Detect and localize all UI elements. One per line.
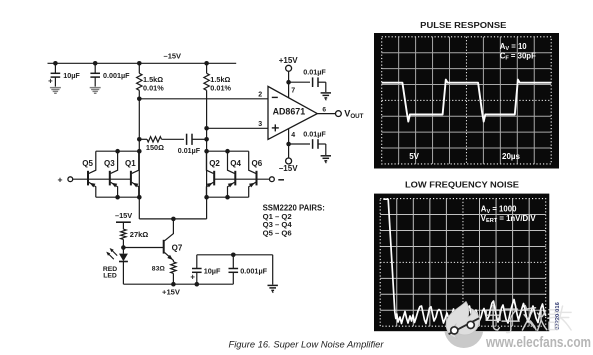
label - input bbox=[278, 179, 284, 181]
svg-text:83Ω: 83Ω bbox=[152, 265, 166, 272]
junction: pin3 node bbox=[204, 126, 209, 131]
node: VOUT terminal bbox=[336, 111, 342, 117]
op-amp minus marking bbox=[272, 96, 278, 98]
-15V supply terminal (bias) bbox=[116, 222, 131, 229]
transistor Q4 bbox=[228, 151, 236, 197]
svg-text:0.01µF: 0.01µF bbox=[303, 129, 326, 138]
junction: Q1 emitter at vertical bbox=[137, 195, 142, 200]
wire: tail bus bbox=[139, 218, 206, 220]
svg-text:Q7: Q7 bbox=[172, 244, 183, 253]
svg-text:+: + bbox=[48, 77, 53, 86]
svg-text:0.01%: 0.01% bbox=[210, 83, 231, 92]
svg-text:+: + bbox=[57, 174, 62, 184]
svg-text:4: 4 bbox=[291, 132, 295, 139]
op-amp U1 AD8671 bbox=[268, 86, 317, 139]
svg-text:150Ω: 150Ω bbox=[146, 143, 164, 152]
junction: pin2 node bbox=[137, 97, 142, 102]
transistor Q3 bbox=[110, 151, 118, 197]
svg-text:CF = 30pF: CF = 30pF bbox=[500, 51, 536, 61]
svg-text:Q1: Q1 bbox=[125, 159, 136, 168]
diode RED LED bbox=[119, 248, 128, 285]
+15V supply terminal (op-amp pin 7) bbox=[286, 65, 292, 98]
junction: 0.001uF on rail bbox=[93, 61, 98, 66]
ground (0.001uF) bbox=[90, 87, 101, 89]
svg-text:Q5 – Q6: Q5 – Q6 bbox=[263, 229, 292, 238]
junction: 10uF on rail bbox=[53, 61, 58, 66]
wire: noninverting node to op-amp pin 3 bbox=[207, 127, 268, 129]
svg-text:2: 2 bbox=[258, 91, 262, 98]
junction: Q4 emitter bbox=[225, 195, 230, 200]
svg-text:Q3: Q3 bbox=[104, 159, 115, 168]
junction: Q7 collector on tail bus bbox=[171, 217, 176, 222]
resistor 1.5k 0.01% (right) bbox=[204, 63, 209, 128]
svg-text:+15V: +15V bbox=[162, 288, 181, 297]
svg-text:10µF: 10µF bbox=[63, 71, 80, 80]
svg-text:0.01%: 0.01% bbox=[143, 83, 164, 92]
junction: 0.001uF top bbox=[231, 253, 236, 258]
junction: 83R on +15V rail bbox=[171, 282, 176, 287]
junction: Q2 collector at vertical bbox=[204, 149, 209, 154]
capacitor 0.001uF (bottom bypass) bbox=[229, 255, 239, 284]
transistor Q5 bbox=[88, 151, 96, 197]
capacitor 0.01uF (pin4 bypass) bbox=[289, 139, 326, 155]
transistor Q6 bbox=[249, 151, 257, 197]
resistor 27k bbox=[121, 229, 126, 247]
SSM2220 pairs note bbox=[263, 203, 325, 237]
label RED LED bbox=[103, 266, 117, 280]
svg-text:27kΩ: 27kΩ bbox=[130, 230, 149, 239]
wire: bottom bypass top line bbox=[197, 254, 273, 256]
junction: pin4 bypass tap bbox=[286, 142, 291, 147]
transistor Q2 bbox=[206, 151, 214, 197]
junction: cap at right vertical bbox=[204, 137, 209, 142]
svg-text:LED: LED bbox=[103, 272, 117, 279]
svg-text:PULSE RESPONSE: PULSE RESPONSE bbox=[420, 20, 506, 30]
svg-text:AD8671: AD8671 bbox=[273, 107, 306, 117]
capacitor 0.01uF (pin7 bypass) bbox=[289, 77, 326, 92]
LED light emission arrows bbox=[106, 248, 117, 259]
transistor Q1 bbox=[131, 151, 139, 197]
svg-text:Q5: Q5 bbox=[82, 159, 93, 168]
svg-text:Figure 16. Super Low Noise Amp: Figure 16. Super Low Noise Amplifier bbox=[229, 340, 385, 350]
node: - input terminal bbox=[270, 177, 275, 182]
value 1.5kOhm 0.01% (right) bbox=[210, 75, 231, 92]
capacitor 10uF (bottom bypass) bbox=[190, 255, 201, 284]
svg-text:Q4: Q4 bbox=[230, 159, 241, 168]
svg-text:+: + bbox=[190, 272, 195, 281]
junction: Q3 emitter bbox=[115, 195, 120, 200]
capacitor C 0.001uF (left bypass) bbox=[90, 63, 100, 86]
capacitor C 10uF (left bypass) bbox=[48, 63, 60, 86]
wire: output to VOUT terminal bbox=[317, 113, 336, 115]
svg-text:www.elecfans.com: www.elecfans.com bbox=[485, 335, 591, 351]
junction: Q2 emitter at vertical bbox=[204, 195, 209, 200]
svg-text:5V: 5V bbox=[409, 152, 419, 161]
junction: Q4 collector bbox=[225, 149, 230, 154]
junction: LED / Q7 base node bbox=[121, 245, 126, 250]
junction: 150R at left vertical bbox=[137, 137, 142, 142]
ground (pin4 bypass) bbox=[321, 155, 331, 157]
watermark molecule circle 2 bbox=[467, 321, 474, 328]
svg-text:Q6: Q6 bbox=[252, 159, 263, 168]
wire: left main vertical bbox=[138, 99, 140, 219]
wire: node to Q7 base bbox=[123, 247, 163, 249]
junction: R right on rail bbox=[204, 61, 209, 66]
wire: right emitter bus bbox=[207, 196, 249, 198]
junction: 10uF on +15V rail bbox=[195, 282, 200, 287]
scope 2 bezel and graticule bbox=[374, 194, 549, 332]
watermark CJK glyphs bbox=[486, 306, 571, 333]
svg-text:0.01µF: 0.01µF bbox=[303, 67, 326, 76]
junction: Q3 collector bbox=[115, 149, 120, 154]
ground (pin7 bypass) bbox=[321, 92, 331, 94]
scope 1 pulse trace bbox=[382, 80, 552, 122]
svg-text:+15V: +15V bbox=[279, 56, 299, 65]
watermark molecule line bbox=[449, 318, 480, 334]
node: + input terminal bbox=[68, 177, 73, 182]
op-amp plus marking bbox=[272, 124, 279, 131]
-15V top supply rail bbox=[48, 62, 237, 64]
scope 1 bezel and graticule bbox=[374, 33, 559, 169]
wire: + input to Q5/Q3/Q1 bases bbox=[73, 178, 131, 180]
transistor Q7 bbox=[164, 219, 174, 262]
resistor 150 Ohm bbox=[139, 137, 184, 142]
wire: inverting input node to op-amp pin 2 bbox=[139, 98, 268, 100]
svg-text:6: 6 bbox=[322, 106, 326, 113]
capacitor 0.01uF (series) bbox=[187, 134, 207, 145]
ground (10uF) bbox=[50, 87, 61, 89]
junction: Q1 collector at vertical bbox=[137, 149, 142, 154]
svg-text:Q2: Q2 bbox=[209, 159, 220, 168]
svg-text:20µs: 20µs bbox=[502, 152, 521, 161]
-15V supply terminal (op-amp pin 4) bbox=[286, 129, 292, 164]
wire: right collector bus bbox=[207, 150, 249, 152]
junction: pin7 bypass tap bbox=[286, 80, 291, 85]
wire: +15V bottom rail bbox=[123, 283, 233, 285]
wire: right main vertical bbox=[206, 128, 208, 219]
svg-text:–15V: –15V bbox=[164, 52, 182, 61]
wire: left collector bus bbox=[96, 150, 140, 152]
svg-text:–15V: –15V bbox=[279, 164, 298, 173]
svg-text:LOW FREQUENCY NOISE: LOW FREQUENCY NOISE bbox=[405, 180, 519, 190]
ground (bottom bypass) bbox=[268, 284, 278, 286]
svg-text:0.01µF: 0.01µF bbox=[178, 147, 201, 155]
resistor 83 Ohm bbox=[171, 262, 176, 284]
svg-text:7: 7 bbox=[291, 88, 295, 95]
watermark flame logo bbox=[446, 302, 479, 339]
watermark circle disc bbox=[444, 331, 483, 348]
scope 2 noise trace bbox=[383, 199, 545, 323]
wire: left emitter bus bbox=[96, 196, 140, 198]
svg-text:3: 3 bbox=[258, 121, 262, 128]
value 1.5kOhm 0.01% (left) bbox=[143, 75, 164, 92]
junction: R left on rail bbox=[137, 61, 142, 66]
svg-text:–15V: –15V bbox=[115, 211, 132, 220]
resistor 1.5k 0.01% (left) bbox=[137, 63, 142, 99]
svg-text:0.001µF: 0.001µF bbox=[103, 71, 130, 80]
watermark molecule circle 1 bbox=[451, 327, 458, 334]
svg-text:10µF: 10µF bbox=[204, 266, 221, 275]
wire: bypass line to ground bbox=[272, 255, 274, 285]
wire: - input to Q2/Q4/Q6 bases bbox=[214, 178, 269, 180]
svg-text:0.001µF: 0.001µF bbox=[240, 266, 267, 275]
